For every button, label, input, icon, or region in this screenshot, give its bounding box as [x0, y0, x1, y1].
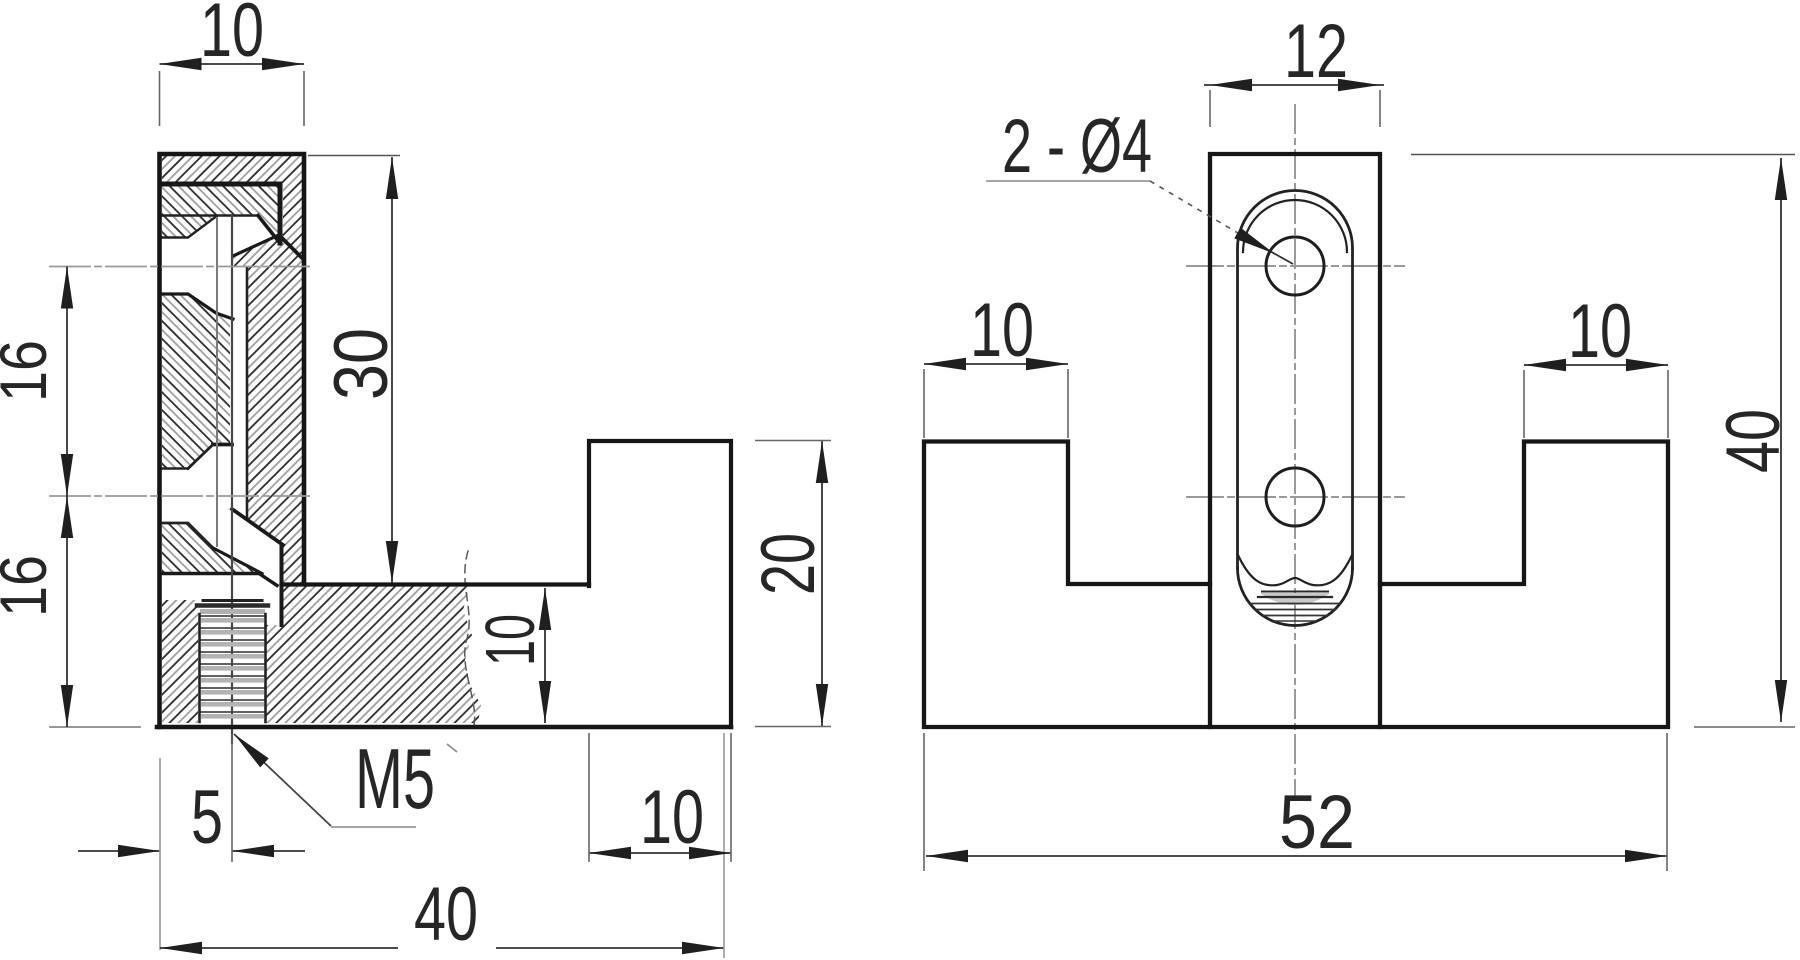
dim 10 (left block, right view): [924, 288, 1068, 438]
svg-text:30: 30: [319, 328, 404, 400]
dim 40 (right view, far right): [1411, 155, 1796, 728]
svg-text:M5: M5: [355, 732, 435, 827]
hole1 centerline: [1187, 265, 1404, 267]
svg-text:12: 12: [1284, 9, 1348, 94]
dim 10 (right block of left view): [589, 733, 731, 862]
dim 40 (left view bottom): [160, 733, 724, 958]
svg-text:16: 16: [0, 340, 60, 402]
M5 thread side walls: [198, 614, 201, 722]
hole 1: [1266, 237, 1324, 295]
thread bottom lines: [1262, 591, 1328, 593]
svg-text:40: 40: [1711, 409, 1796, 473]
M5 thread cap: [203, 599, 262, 602]
slot top arc: [1238, 190, 1353, 248]
housing hatch: right of M5 thread: [266, 625, 281, 723]
M5 thread bands: [200, 616, 265, 719]
countersink upper diagonal: [233, 234, 281, 256]
slot rear face line: [216, 218, 218, 546]
dim 52 (right view bottom): [924, 733, 1667, 871]
svg-text:52: 52: [1279, 780, 1355, 865]
dim 20 (right of left view): [746, 441, 831, 727]
insert hatch: below hole2: [162, 524, 258, 573]
insert bottom edge: [162, 574, 277, 586]
svg-text:10: 10: [200, 0, 264, 73]
slot / M5 axis line: [231, 216, 233, 743]
dim 10 (arm height, rotated): [471, 588, 551, 723]
dim 12 (top of right view): [1204, 9, 1384, 127]
countersink wall diagonal: [282, 238, 303, 259]
slot bottom diagonal: [232, 509, 283, 545]
slot right boundary: [246, 268, 249, 520]
thread bottom fill: [1260, 593, 1330, 605]
hole2 bore and countersink edges: [213, 443, 232, 447]
dim 10 (top of left view): [160, 0, 305, 126]
vertical centerline: [1294, 105, 1296, 795]
insert hatch: top band: [162, 186, 279, 240]
label 2 - O4 with leader: [986, 104, 1293, 264]
svg-text:5: 5: [191, 775, 223, 860]
insert hatch: between holes: [162, 295, 230, 468]
centerline hole1: [50, 266, 309, 268]
housing hatch: wedge above hole1 centerline: [233, 234, 302, 267]
svg-text:16: 16: [0, 555, 60, 617]
housing hatch: right strip below centerline: [247, 267, 302, 586]
housing hatch: arm with break-line boundary: [281, 586, 481, 723]
break line (dashed wavy): [465, 551, 475, 725]
dim 30 (left view right side): [308, 156, 404, 584]
svg-text:2 - Ø4: 2 - Ø4: [1002, 104, 1152, 189]
svg-text:10: 10: [970, 288, 1034, 373]
label M5 with leader: [230, 730, 457, 827]
dim 10 (right block, right view): [1524, 289, 1668, 438]
slot bottom vertical: [280, 545, 284, 625]
housing hatch: left of M5 thread: [162, 600, 198, 723]
insert cavity edge (thick L): [162, 184, 280, 243]
outline: right block: [589, 441, 731, 727]
svg-text:40: 40: [414, 872, 478, 957]
centerline hole2: [50, 495, 309, 497]
M5 cone intersection curve: [1238, 554, 1353, 585]
outline: bottom edge: [157, 725, 731, 730]
dim 5 (M5 position): [78, 734, 305, 950]
bottom face tick: [50, 726, 140, 728]
outline: stepped blocks and column: [924, 154, 1668, 727]
hole2 centerline: [1187, 496, 1404, 498]
slot top inner arc: [1243, 200, 1347, 252]
hole1 bore and countersink edges: [162, 217, 216, 238]
column edges to bottom: [1210, 584, 1380, 727]
svg-text:10: 10: [640, 775, 704, 860]
svg-text:20: 20: [746, 533, 831, 595]
insert band bottom edge: [162, 214, 258, 216]
outline: column: [160, 154, 305, 727]
hole 2: [1266, 468, 1324, 526]
dim 16 + 16 (left side): [0, 267, 73, 728]
slot bottom arc: [1238, 568, 1353, 626]
outline: arm top edge: [282, 582, 590, 586]
housing hatch: top band: [162, 155, 302, 183]
svg-text:10: 10: [471, 614, 549, 666]
slot outline: [1236, 250, 1239, 568]
svg-text:10: 10: [1568, 289, 1632, 374]
housing hatch: right wall wedge: [283, 183, 302, 258]
